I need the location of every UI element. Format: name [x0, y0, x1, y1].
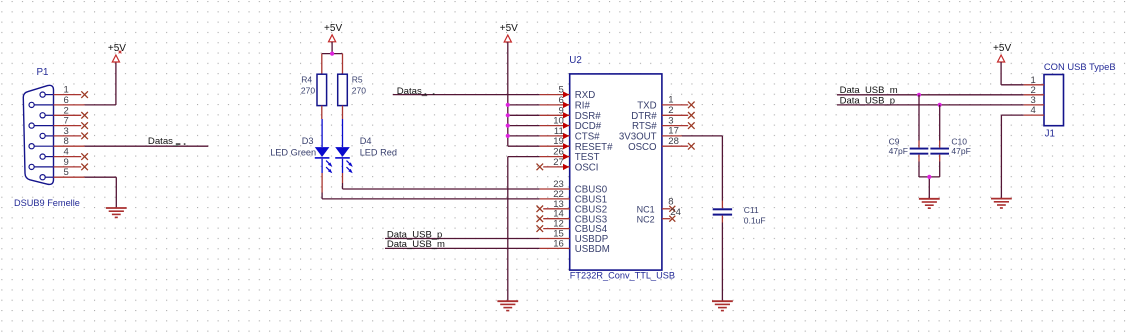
wire C10 drop: [939, 105, 941, 141]
svg-text:U2: U2: [569, 55, 582, 66]
pin stub C9 bottom: [918, 155, 920, 162]
wire C11 to ground: [721, 223, 723, 302]
wire C9 drop: [918, 95, 920, 141]
pin stub R5 top: [342, 54, 344, 75]
connector J1 pin stubs: [1024, 84, 1044, 86]
IC U2 right pin stubs: [662, 104, 688, 106]
pin stub C11 top: [721, 201, 723, 209]
no-connect X marks P1 pins 1 2 7 3 4 9: [81, 91, 88, 98]
svg-text:+5V: +5V: [324, 23, 342, 34]
pin stub C10 top: [939, 141, 941, 148]
junction node above R4 R5: [330, 52, 334, 56]
connector P1 pin circles: [40, 92, 45, 97]
svg-text:1: 1: [668, 95, 673, 106]
wire P1 pin6 to +5V: [85, 104, 116, 106]
wire net Data_USB_m to USBDM: [385, 247, 540, 249]
pin stub R5 bottom: [342, 106, 344, 119]
no-connect X marks U2 left pins: [537, 164, 544, 171]
svg-text:47pF: 47pF: [951, 146, 970, 156]
svg-text:TXD: TXD: [637, 101, 656, 112]
svg-text:R4: R4: [301, 75, 312, 85]
wire P1 pin8 net Datas_: [85, 145, 209, 147]
no-connect X marks U2 right pins: [688, 102, 695, 109]
resistor R5: [338, 74, 348, 105]
pin stub D4 bottom: [342, 173, 344, 183]
pin stub C10 bottom: [939, 155, 941, 162]
capacitor C9: [910, 148, 929, 150]
pin stub R4 bottom: [321, 106, 323, 119]
svg-text:16: 16: [553, 238, 564, 249]
svg-text:USBDM: USBDM: [575, 244, 610, 255]
svg-text:RESET#: RESET#: [575, 142, 613, 153]
wire +5V to R4 R5 junction: [331, 42, 333, 54]
ground (TEST): [497, 300, 518, 302]
svg-text:FT232R_Conv_TTL_USB: FT232R_Conv_TTL_USB: [570, 271, 675, 281]
svg-text:270: 270: [301, 85, 315, 95]
IC U2 left pin stubs: [540, 94, 570, 96]
IC U2 left pin arrows: [563, 91, 569, 97]
ground (P1): [106, 207, 127, 209]
svg-text:0.1uF: 0.1uF: [744, 215, 766, 225]
wire +5V to J1 pin1: [1000, 62, 1002, 85]
junction node row 1: [506, 103, 510, 107]
svg-text:D3: D3: [302, 136, 314, 146]
wire net Datas_ to RXD: [393, 94, 540, 96]
svg-text:Datas_: Datas_: [148, 136, 179, 147]
connector P1 pin stubs: [54, 94, 82, 96]
wire +5V to U2 row 1: [508, 104, 540, 106]
capacitor C10: [930, 148, 949, 150]
connector P1 DSUB9 body: [23, 85, 53, 184]
wire P1 pin5 to ground: [85, 176, 117, 178]
wire 3V3OUT to C11: [682, 135, 723, 137]
svg-text:C11: C11: [744, 205, 759, 215]
svg-text:C9: C9: [889, 136, 900, 146]
pin stub C9 top: [918, 141, 920, 148]
junction node C10 tap: [938, 103, 942, 107]
pin stub R4 top: [321, 54, 323, 75]
capacitor C11: [713, 208, 732, 210]
svg-text:19: 19: [553, 136, 564, 147]
wire +5V to U2 row 3: [508, 125, 540, 127]
wire J1 pin4 to ground: [1001, 114, 1023, 116]
svg-text:P1: P1: [37, 67, 49, 78]
wire net Data_USB_p to USBDP: [385, 238, 540, 240]
junction node C9 C10 ground: [927, 175, 931, 179]
pin stub C11 bottom: [721, 216, 723, 223]
svg-text:OSCI: OSCI: [575, 163, 599, 174]
svg-text:LED Green: LED Green: [270, 147, 316, 157]
no-connect X NC1: [669, 206, 675, 212]
svg-text:Data_USB_m: Data_USB_m: [387, 239, 445, 250]
ground (C11): [712, 300, 733, 302]
svg-text:28: 28: [668, 136, 679, 147]
IC U2 body: [570, 74, 662, 270]
LED D3: [321, 119, 323, 147]
wire net Data_USB_m to J1 pin2: [837, 94, 1024, 96]
svg-text:R5: R5: [352, 75, 363, 85]
svg-text:NC1: NC1: [637, 204, 655, 214]
wire +5V to U2 row 2: [508, 114, 540, 116]
wire net Data_USB_p to J1 pin3: [837, 104, 1024, 106]
wire C9 C10 common to ground: [918, 162, 920, 177]
LED D4: [342, 119, 344, 147]
svg-text:CON USB TypeB: CON USB TypeB: [1044, 61, 1116, 72]
svg-text:OSCO: OSCO: [628, 142, 657, 153]
resistor R4: [317, 74, 327, 105]
wire RESET# row: [508, 145, 540, 147]
IC U2 NC1 pin: [662, 208, 671, 210]
junction node row 3: [506, 124, 510, 128]
IC U2 NC2 pin: [662, 218, 671, 220]
wire D4 to CBUS0: [342, 183, 344, 189]
junction node row 2: [506, 113, 510, 117]
svg-text:+5V: +5V: [108, 43, 126, 54]
svg-text:RI#: RI#: [575, 101, 591, 112]
svg-text:+5V: +5V: [993, 43, 1011, 54]
svg-text:LED Red: LED Red: [360, 147, 397, 157]
wire +5V to U2 row 4: [508, 135, 540, 137]
svg-text:C10: C10: [951, 136, 967, 146]
svg-text:270: 270: [352, 85, 366, 95]
wire +5V vertical to U2 pins: [507, 42, 509, 146]
svg-text:+5V: +5V: [500, 23, 518, 34]
svg-text:47pF: 47pF: [889, 146, 908, 156]
svg-text:NC2: NC2: [637, 214, 655, 224]
no-connect X NC2: [669, 216, 675, 222]
wire TEST to ground: [508, 156, 540, 158]
ground (J1): [991, 198, 1012, 200]
svg-text:4: 4: [1031, 105, 1036, 116]
junction node C9 tap: [917, 93, 921, 97]
wire D3 to CBUS1: [321, 193, 323, 199]
power origin mark: [119, 51, 122, 54]
svg-text:DSUB9 Femelle: DSUB9 Femelle: [14, 198, 80, 208]
ground (C9 C10): [919, 198, 940, 200]
junction node row 4: [506, 134, 510, 138]
svg-text:Datas_: Datas_: [397, 86, 428, 97]
connector J1 body: [1044, 75, 1064, 126]
svg-text:27: 27: [553, 157, 564, 168]
pin stub D3 bottom: [321, 173, 323, 193]
svg-text:6: 6: [559, 95, 564, 106]
svg-text:J1: J1: [1045, 128, 1055, 139]
svg-text:D4: D4: [360, 136, 372, 146]
